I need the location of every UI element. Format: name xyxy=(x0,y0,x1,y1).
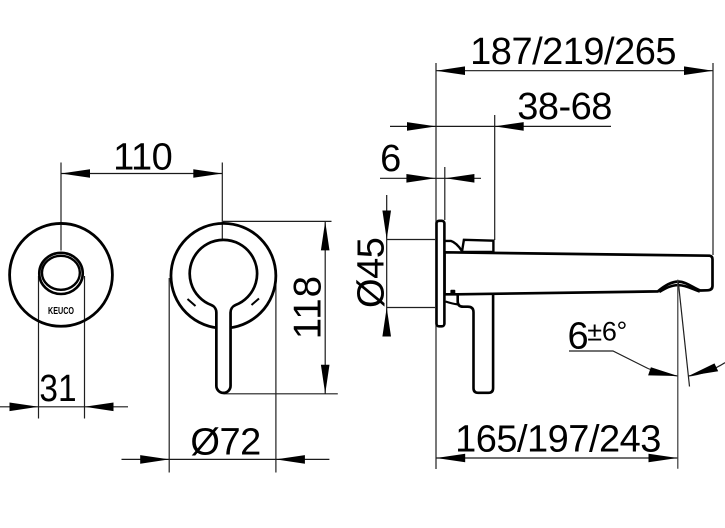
side view: aerator inner curve xyxy=(659,285,700,292)
knob outer ring xyxy=(39,253,83,294)
side view: spout body xyxy=(445,252,713,294)
arrow 118 bottom xyxy=(321,365,330,394)
svg-text:31: 31 xyxy=(39,367,76,409)
dimension line 6 xyxy=(380,177,481,179)
side view: escutcheon cone bottom edge xyxy=(446,302,458,305)
spout angle tilted line xyxy=(678,283,689,387)
extension line: handle circle right tangent (dim 72) xyxy=(275,278,277,473)
arrow 6 left (outside) xyxy=(406,174,435,183)
lever outer circle (front view) xyxy=(171,223,276,328)
extension line: spout tip (dim 187) xyxy=(712,63,714,255)
angle arc left xyxy=(648,369,678,377)
rosette edge dash right xyxy=(252,299,260,306)
lever keyhole: inner ring + stem xyxy=(190,240,257,393)
tick: escutcheon bottom (dim 45) xyxy=(387,307,435,309)
svg-text:118: 118 xyxy=(286,275,329,339)
leader line for angle 6 xyxy=(569,351,648,369)
dimension line 165/197/243 xyxy=(436,457,677,459)
reference line: handle top (dim 118) xyxy=(223,220,332,222)
svg-text:±6°: ±6° xyxy=(587,317,627,347)
dimension line 72 xyxy=(122,458,330,460)
arrow 38-68 left (outside) xyxy=(407,122,436,131)
angle arrow right xyxy=(689,363,719,376)
arrow 187 right xyxy=(684,66,713,75)
svg-text:165/197/243: 165/197/243 xyxy=(455,418,661,460)
arrow 165 left xyxy=(436,454,465,463)
aerator axis vertical line xyxy=(677,280,679,469)
extension line: adjustable wall range (dim 38-68) xyxy=(494,115,496,240)
side view: set screw xyxy=(450,290,455,295)
side view: wall plate xyxy=(437,221,445,326)
arrow 110 left xyxy=(61,169,90,178)
svg-text:Ø72: Ø72 xyxy=(190,422,260,464)
rosette edge dash left xyxy=(188,299,196,306)
arrow 45 top xyxy=(382,211,391,240)
svg-text:6: 6 xyxy=(380,138,401,180)
side view: escutcheon cylinder block xyxy=(462,240,494,252)
arrow 45 bottom xyxy=(382,308,391,337)
dimension line 31 xyxy=(0,406,128,408)
arrow 6 right (outside) xyxy=(445,174,474,183)
svg-text:110: 110 xyxy=(113,137,172,179)
svg-text:187/219/265: 187/219/265 xyxy=(470,31,676,73)
extension line: plate right face (dim 6) xyxy=(444,167,446,220)
svg-text:Ø45: Ø45 xyxy=(351,238,393,308)
dimension line 118 xyxy=(324,221,326,393)
angle arrow left xyxy=(648,367,678,376)
extension line: left view center (dim 110) xyxy=(60,163,62,251)
arrow 165 right xyxy=(649,454,678,463)
arrow 31 right xyxy=(85,403,114,412)
arrow 72 right xyxy=(276,455,305,464)
dimension line diameter 45 xyxy=(386,195,388,335)
extension line: knob right tangent (dim 31) xyxy=(84,276,86,419)
side view: handle lever xyxy=(458,294,493,393)
dimension line 38-68 xyxy=(390,125,611,127)
extension line: handle view center (dim 110) xyxy=(221,163,223,251)
arrow 187 left xyxy=(436,66,465,75)
arrow 118 top xyxy=(321,221,330,250)
extension line: handle circle left tangent (dim 72) xyxy=(168,278,170,473)
svg-text:38-68: 38-68 xyxy=(517,86,612,128)
reference line: lever tip bottom (dim 118) xyxy=(224,393,338,395)
arrow 31 left xyxy=(10,403,39,412)
extension line: wall face (dims 187 / 38-68 / 165) xyxy=(435,63,437,469)
arrow 72 left xyxy=(140,455,169,464)
dimension line 187/219/265 xyxy=(436,70,713,72)
svg-text:KEUCO: KEUCO xyxy=(48,306,74,317)
rosette front view (left) xyxy=(10,223,113,326)
arrow 110 right xyxy=(193,169,222,178)
angle arc right xyxy=(689,363,725,376)
dimension line 110 xyxy=(61,173,222,175)
tick: escutcheon top (dim 45) xyxy=(387,239,435,241)
side view: escutcheon cone top edge xyxy=(446,241,462,251)
svg-text:6: 6 xyxy=(568,315,589,357)
knob inner ring xyxy=(42,256,80,290)
arrow 38-68 right (outside) xyxy=(495,122,524,131)
extension line: knob left tangent (dim 31) xyxy=(38,276,40,419)
